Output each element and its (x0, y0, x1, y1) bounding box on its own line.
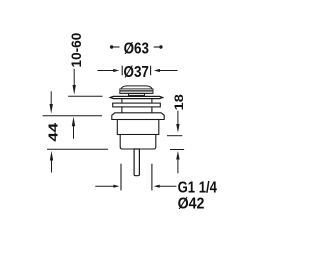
dimension Ø37 right arrow (154, 69, 178, 72)
extension line narrow bottom (right) (170, 149, 184, 151)
valve pull rod (134, 149, 139, 176)
dimension Ø42 right arrow leading to G1 1/4 (154, 185, 177, 188)
svg-text:18: 18 (172, 94, 186, 111)
dimension Ø42 left tick (120, 164, 122, 191)
svg-text:Ø37: Ø37 (124, 64, 149, 81)
dimension Ø37 left tick (121, 66, 123, 76)
extension line body step (right) (167, 135, 182, 137)
extension line flange top (left) (68, 95, 103, 97)
dimension Ø37 left arrow (97, 69, 119, 72)
dimension 18 upper arrow (down) (176, 111, 179, 133)
dimension Ø63 left arrow (dot + tail) (110, 45, 120, 48)
dimension Ø63 right arrow (tail + dot) (154, 45, 163, 48)
extension line body bottom (left) (47, 148, 108, 150)
valve lower narrow section (120, 135, 156, 150)
dimension Ø42 right tick (151, 164, 153, 191)
dimension 10-60 upper arrow (down) (73, 69, 76, 95)
dimension 44 label (rotated) (46, 122, 61, 141)
dimension Ø37 right tick (150, 66, 152, 76)
dimension Ø63 label (124, 40, 149, 57)
svg-text:44: 44 (46, 122, 61, 141)
extension line nut top (left) (43, 115, 103, 117)
dimension 44 lower arrow (up) (50, 151, 53, 173)
valve body cylinder (117, 120, 159, 135)
dimension 18 lower arrow (up) (176, 151, 179, 173)
valve washer disc (113, 103, 161, 107)
label Ø42 (178, 195, 205, 213)
valve flange (top disc, edge view) (110, 96, 162, 98)
valve cap dome (121, 86, 152, 89)
dimension 10-60 label (rotated) (69, 33, 84, 68)
dimension Ø37 label (124, 64, 149, 81)
dimension 44 upper arrow (down) (50, 91, 53, 113)
svg-text:10-60: 10-60 (69, 33, 84, 68)
svg-text:Ø63: Ø63 (124, 40, 149, 57)
valve neck lower segment (122, 107, 152, 113)
dimension Ø42 left arrow (95, 185, 119, 188)
svg-text:Ø42: Ø42 (178, 195, 205, 213)
dimension 18 label (rotated) (172, 94, 186, 111)
valve nut (112, 113, 164, 120)
dimension 10-60 lower arrow (up) (72, 117, 75, 139)
label G1 1/4 (178, 180, 217, 197)
valve cap base block (129, 94, 145, 96)
valve neck upper segment (122, 98, 152, 103)
valve cap ring stack (120, 89, 153, 94)
